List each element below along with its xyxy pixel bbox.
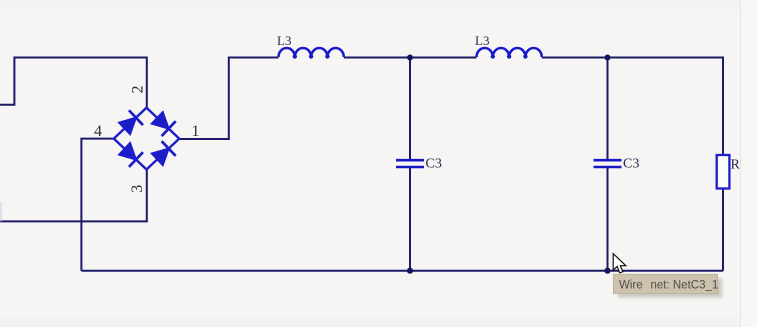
mouse cursor: [613, 254, 626, 273]
svg-text:R: R: [731, 158, 741, 173]
svg-text:C3: C3: [623, 157, 639, 172]
svg-text:4: 4: [94, 123, 102, 140]
wire: top rail between L3 and node A: [344, 57, 477, 59]
capacitor C3 (first): [396, 160, 424, 167]
inductor L3 (second): [477, 48, 542, 57]
svg-text:L3: L3: [277, 33, 291, 48]
partially clipped element at left edge: [0, 202, 2, 222]
wire: right branch down to resistor R: [722, 57, 724, 156]
resistor R: [717, 155, 730, 189]
wire: AC bottom net (left edge to bridge pin 3): [0, 170, 147, 222]
wire: bottom negative rail: [81, 270, 723, 272]
junction node A (top rail / C3): [407, 55, 413, 61]
wire: pin 4 to negative rail: [81, 139, 113, 271]
junction node B (top rail / second C3): [605, 55, 611, 61]
svg-text:Wire: Wire: [619, 279, 643, 291]
diode D1d (pin3 to pin1, lower-right arm): [150, 141, 176, 167]
diode D1a (pin4 to pin2, upper-left arm): [117, 110, 143, 136]
svg-text:3: 3: [129, 185, 146, 193]
wire: AC top net (left edge to bridge pin 2): [0, 58, 147, 108]
junction: negative rail / C3: [407, 268, 413, 274]
svg-text:net: NetC3_1: net: NetC3_1: [651, 279, 719, 291]
tooltip: Wire net NetC3_1: [614, 274, 718, 293]
svg-text:2: 2: [130, 86, 147, 94]
diode D1c (pin4 to pin3, lower-left arm): [117, 141, 143, 167]
wire: node B vertical to second capacitor C3: [607, 58, 609, 160]
junction: negative rail / second C3: [604, 268, 610, 274]
svg-text:C3: C3: [426, 157, 442, 172]
svg-text:1: 1: [192, 123, 200, 140]
capacitor C3 (second): [594, 160, 622, 167]
wire: capacitor C3 bottom to negative rail: [409, 168, 411, 271]
wire: pin 1 to top rail: [179, 58, 278, 140]
bridge rectifier D1 (diamond body): [114, 108, 179, 170]
wire: resistor R bottom to negative rail: [722, 189, 724, 271]
wire: node A vertical to capacitor C3: [409, 58, 411, 160]
tooltip shadow: [618, 279, 722, 298]
wire: top rail between second L3 and node B: [542, 57, 723, 59]
svg-text:L3: L3: [475, 33, 489, 48]
diode D1b (pin2 to pin1, upper-right arm): [150, 110, 176, 136]
wire: second capacitor C3 bottom to negative rail: [607, 168, 609, 271]
inductor L3 (first): [279, 48, 344, 57]
